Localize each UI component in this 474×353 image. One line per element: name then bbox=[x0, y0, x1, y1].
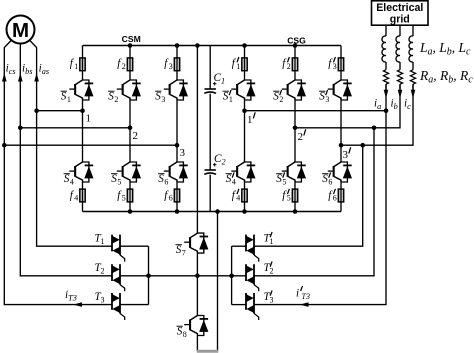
svg-text:3: 3 bbox=[270, 295, 274, 304]
svg-text:S: S bbox=[158, 173, 164, 185]
label S′4 bbox=[226, 172, 236, 186]
fuse f6 bbox=[174, 189, 179, 202]
switch S′4 bbox=[231, 162, 255, 182]
node 2p bbox=[293, 126, 298, 131]
svg-text:T3: T3 bbox=[302, 292, 310, 301]
svg-text:4: 4 bbox=[232, 177, 236, 186]
wire CSG leg 3 middle bbox=[340, 100, 342, 162]
svg-text:2: 2 bbox=[287, 62, 291, 71]
wire T3 cathode bbox=[120, 304, 149, 306]
inductor Lb bbox=[396, 36, 400, 62]
switch S7 bbox=[184, 233, 208, 253]
triac T1p bbox=[246, 235, 259, 262]
wire motor phase b bbox=[20, 43, 112, 276]
switch S3 bbox=[164, 80, 188, 100]
wire Tp2 cathode to node 2p bbox=[254, 128, 374, 276]
label S′2 bbox=[273, 90, 283, 104]
switch S2 bbox=[117, 80, 141, 100]
fuse f′5 bbox=[292, 189, 297, 202]
label f5 bbox=[117, 189, 126, 202]
wire Tp1 cathode to node 3p bbox=[254, 145, 363, 246]
switch S′6 bbox=[328, 162, 352, 182]
label f2 bbox=[117, 58, 126, 71]
capacitor C1 bbox=[204, 82, 216, 93]
wire crowbar row bbox=[149, 275, 247, 277]
svg-text:4: 4 bbox=[70, 177, 74, 186]
svg-text:6: 6 bbox=[164, 177, 168, 186]
svg-text:3: 3 bbox=[343, 149, 349, 161]
switch S′1 bbox=[231, 80, 255, 100]
svg-text:1: 1 bbox=[86, 113, 92, 125]
svg-text:2: 2 bbox=[279, 95, 283, 104]
label ip_T3 bbox=[296, 286, 310, 301]
fuse f′6 bbox=[338, 189, 343, 202]
node 3 bbox=[175, 143, 180, 148]
junction phase b row 2 bbox=[18, 126, 23, 131]
wire CSM leg 1 middle bbox=[82, 100, 84, 162]
label f1 bbox=[70, 58, 79, 71]
wire capacitor rail mid bbox=[209, 94, 211, 170]
svg-text:4: 4 bbox=[74, 194, 78, 203]
wire T2 cathode bbox=[120, 275, 149, 277]
switch S5 bbox=[117, 162, 141, 182]
wire capacitor rail bottom bbox=[209, 175, 211, 212]
junction crowbar T bus right bbox=[229, 274, 234, 279]
wire grid mid c bbox=[412, 62, 414, 70]
label S7 bbox=[176, 244, 186, 257]
junction row2p Tp2 bbox=[372, 126, 377, 131]
svg-text:5: 5 bbox=[122, 194, 126, 203]
svg-text:1: 1 bbox=[101, 237, 105, 246]
junction top bus center rail bbox=[195, 43, 200, 48]
svg-text:2: 2 bbox=[114, 95, 118, 104]
wire CSG leg 2 upper bbox=[294, 46, 296, 81]
label S′3 bbox=[319, 90, 329, 104]
wire CSM leg 3 upper bbox=[176, 46, 178, 81]
svg-text:1: 1 bbox=[74, 62, 78, 71]
svg-text:1: 1 bbox=[236, 62, 240, 71]
svg-text:8: 8 bbox=[183, 330, 187, 339]
current arrow i_T3 bbox=[73, 302, 82, 307]
svg-text:S: S bbox=[226, 173, 232, 185]
wire CSG leg 1 middle bbox=[244, 100, 246, 162]
svg-text:6: 6 bbox=[328, 177, 332, 186]
junction bottom bus leg3 bbox=[175, 209, 180, 214]
junction row1p ia bbox=[384, 108, 389, 113]
svg-text:La, Lb, Lc: La, Lb, Lc bbox=[419, 40, 471, 58]
wire node row 2 bbox=[20, 127, 130, 129]
switch S′5 bbox=[282, 162, 306, 182]
svg-text:S: S bbox=[177, 326, 183, 338]
wire grid stub a bbox=[385, 25, 387, 36]
svg-text:4: 4 bbox=[236, 194, 240, 203]
svg-text:S: S bbox=[273, 91, 279, 103]
svg-text:5: 5 bbox=[282, 177, 286, 186]
label T2p bbox=[264, 261, 274, 275]
current arrow i_a bbox=[384, 90, 389, 99]
junction row3p Tp1 bbox=[360, 143, 365, 148]
wire center rail bottom bbox=[196, 336, 198, 352]
wire CSM leg 2 lower bbox=[129, 182, 131, 212]
svg-text:M: M bbox=[12, 19, 29, 42]
svg-text:CSM: CSM bbox=[122, 34, 141, 44]
wire node row 3 bbox=[4, 144, 177, 146]
label S8 bbox=[177, 326, 187, 339]
triac T1 bbox=[112, 235, 125, 262]
label node 1p bbox=[247, 112, 255, 126]
wire CSM leg 3 lower bbox=[176, 182, 178, 212]
junction crowbar S rail bbox=[195, 274, 200, 279]
current arrow i_c bbox=[411, 90, 416, 99]
svg-text:3: 3 bbox=[180, 147, 186, 159]
junction phase a row 1 bbox=[34, 108, 39, 113]
wire CSG leg 2 middle bbox=[294, 100, 296, 162]
inductor La bbox=[382, 36, 386, 62]
wire CSM leg 2 upper bbox=[129, 46, 131, 81]
svg-text:1: 1 bbox=[229, 95, 233, 104]
switch S8 bbox=[184, 316, 208, 336]
inductor Lc bbox=[409, 36, 413, 62]
junction bottom bus CSG leg2 bbox=[293, 209, 298, 214]
fuse f′2 bbox=[292, 58, 297, 71]
wire Tp anode bus bbox=[231, 246, 233, 304]
switch S6 bbox=[164, 162, 188, 182]
switch S′3 bbox=[328, 80, 352, 100]
label f3 bbox=[164, 58, 173, 71]
svg-text:2: 2 bbox=[298, 131, 304, 143]
fuse f4 bbox=[80, 189, 85, 202]
svg-text:S: S bbox=[276, 173, 282, 185]
wire Tp1 anode bbox=[232, 245, 246, 247]
switch S′2 bbox=[282, 80, 306, 100]
wire grid low c bbox=[412, 84, 414, 91]
fuse f5 bbox=[127, 189, 132, 202]
label S1 bbox=[61, 91, 71, 104]
junction bottom bus leg2 bbox=[128, 209, 133, 214]
label T1 bbox=[95, 233, 105, 246]
wire CSG leg 2 lower bbox=[294, 182, 296, 212]
svg-text:S: S bbox=[111, 173, 117, 185]
triac T3 bbox=[112, 293, 125, 320]
current arrow i_b bbox=[398, 90, 403, 99]
svg-text:7: 7 bbox=[182, 248, 186, 257]
wire grid phase a bbox=[385, 84, 387, 111]
node 1 bbox=[80, 108, 85, 113]
wire Tp3 anode bbox=[232, 304, 246, 306]
label S′5 bbox=[276, 172, 286, 186]
svg-text:S: S bbox=[108, 91, 114, 103]
wire bottom dc bus bbox=[83, 211, 342, 213]
svg-text:S: S bbox=[319, 91, 325, 103]
current arrow ip_T3 bbox=[300, 302, 309, 307]
svg-text:Electrical: Electrical bbox=[376, 2, 423, 14]
wire T cathode bus bbox=[148, 246, 150, 304]
wire grey bottom link bbox=[197, 350, 219, 353]
fuse f1 bbox=[80, 58, 85, 71]
svg-text:2: 2 bbox=[101, 266, 105, 275]
wire CSG leg 1 lower bbox=[244, 182, 246, 212]
label S5 bbox=[111, 173, 121, 186]
junction top bus CSG leg1 bbox=[242, 43, 247, 48]
triac T3p bbox=[246, 293, 259, 320]
svg-text:Ra, Rb, Rc: Ra, Rb, Rc bbox=[419, 68, 473, 86]
wire motor phase a bbox=[29, 40, 112, 246]
electrical grid box bbox=[372, 1, 429, 26]
svg-text:1: 1 bbox=[67, 95, 71, 104]
label f′4 bbox=[232, 189, 241, 203]
junction bottom bus rail bbox=[215, 209, 220, 214]
svg-text:S: S bbox=[322, 173, 328, 185]
svg-text:S: S bbox=[176, 244, 182, 256]
junction top bus leg2 bbox=[128, 43, 133, 48]
resistor Ra bbox=[383, 70, 388, 85]
svg-text:2: 2 bbox=[133, 130, 139, 142]
svg-text:grid: grid bbox=[390, 14, 410, 26]
wire capacitor rail top bbox=[209, 46, 211, 90]
wire row 1p bbox=[245, 110, 387, 112]
node 2 bbox=[128, 126, 133, 131]
label f′3 bbox=[328, 57, 337, 71]
resistor Rb bbox=[397, 70, 402, 85]
svg-text:1: 1 bbox=[247, 114, 253, 126]
fuse f′4 bbox=[242, 189, 247, 202]
svg-text:5: 5 bbox=[117, 177, 121, 186]
label S3 bbox=[155, 91, 165, 104]
wire CSG leg 3 upper bbox=[340, 46, 342, 81]
triac T2p bbox=[246, 264, 259, 291]
wire top dc bus bbox=[83, 45, 342, 47]
wire grid stub b bbox=[399, 25, 401, 36]
wire grid mid b bbox=[399, 62, 401, 70]
triac T2 bbox=[112, 264, 125, 291]
svg-text:S: S bbox=[61, 91, 67, 103]
fuse f′3 bbox=[338, 58, 343, 71]
label f4 bbox=[70, 189, 79, 202]
svg-text:i: i bbox=[296, 288, 299, 300]
fuse f′1 bbox=[242, 58, 247, 71]
wire T1 cathode bbox=[120, 245, 149, 247]
svg-text:S: S bbox=[223, 91, 229, 103]
label f′6 bbox=[328, 189, 337, 203]
svg-text:3: 3 bbox=[333, 62, 337, 71]
svg-text:S: S bbox=[155, 91, 161, 103]
wire CSM leg 2 middle bbox=[129, 100, 131, 162]
label S2 bbox=[108, 91, 118, 104]
wire CSM leg 3 middle bbox=[176, 100, 178, 162]
svg-text:5: 5 bbox=[287, 194, 291, 203]
svg-text:6: 6 bbox=[169, 194, 173, 203]
current arrow i_bs bbox=[18, 73, 23, 82]
wire row 2p bbox=[295, 84, 400, 128]
wire CSG leg 3 lower bbox=[340, 182, 342, 212]
svg-text:3: 3 bbox=[325, 95, 329, 104]
current arrow i_cs bbox=[2, 73, 7, 82]
wire node row 1 bbox=[37, 110, 83, 112]
svg-text:6: 6 bbox=[333, 194, 337, 203]
wire CSM leg 1 lower bbox=[82, 182, 84, 212]
wire grid low b bbox=[399, 84, 401, 91]
label T1p bbox=[264, 232, 274, 246]
capacitor C2 bbox=[204, 163, 216, 174]
resistor Rc bbox=[410, 70, 415, 85]
wire return rail bbox=[217, 212, 219, 352]
label f′1 bbox=[232, 57, 241, 71]
label f6 bbox=[164, 189, 173, 202]
node 1p bbox=[242, 108, 247, 113]
svg-text:S: S bbox=[64, 173, 70, 185]
junction phase c row 3 bbox=[2, 143, 7, 148]
wire row 3p bbox=[341, 84, 413, 145]
label T3 bbox=[95, 291, 105, 304]
wire CSG leg 1 upper bbox=[244, 46, 246, 81]
switch S4 bbox=[69, 162, 93, 182]
junction top bus leg3 bbox=[175, 43, 180, 48]
svg-text:1: 1 bbox=[270, 237, 274, 246]
label node 3p bbox=[343, 147, 351, 161]
label T2 bbox=[95, 262, 105, 275]
fuse f3 bbox=[174, 58, 179, 71]
label S6 bbox=[158, 173, 168, 186]
wire grid mid a bbox=[385, 62, 387, 70]
wire center rail upper bbox=[196, 46, 198, 234]
svg-text:3: 3 bbox=[169, 62, 173, 71]
junction bottom bus CSG leg1 bbox=[242, 209, 247, 214]
wire CSM leg 1 upper bbox=[82, 46, 84, 81]
label S′6 bbox=[322, 172, 332, 186]
wire motor phase c bbox=[4, 40, 112, 305]
label T3p bbox=[264, 290, 274, 304]
fuse f2 bbox=[127, 58, 132, 71]
motor M bbox=[7, 16, 35, 44]
label S4 bbox=[64, 173, 74, 186]
label f′5 bbox=[282, 189, 291, 203]
svg-text:2: 2 bbox=[270, 266, 274, 275]
switch S1 bbox=[69, 80, 93, 100]
wire Tp3 cathode to node 1p bbox=[254, 111, 386, 305]
svg-text:3: 3 bbox=[101, 295, 105, 304]
label f′2 bbox=[282, 57, 291, 71]
svg-text:2: 2 bbox=[122, 62, 126, 71]
label S′1 bbox=[223, 90, 233, 104]
node 3p bbox=[339, 143, 344, 148]
junction T bus bbox=[146, 274, 151, 279]
wire grid low a bbox=[385, 84, 387, 91]
junction top bus CSG leg2 bbox=[293, 43, 298, 48]
svg-text:3: 3 bbox=[161, 95, 165, 104]
wire grid stub c bbox=[412, 25, 414, 36]
wire center rail mid bbox=[196, 253, 198, 315]
label node 2p bbox=[298, 129, 306, 143]
current arrow i_as bbox=[34, 73, 39, 82]
